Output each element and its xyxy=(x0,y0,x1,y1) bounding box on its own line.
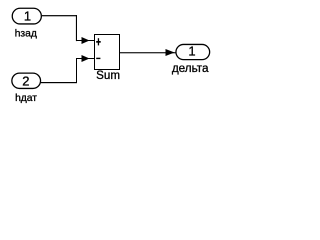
svg-text:hдат: hдат xyxy=(15,93,37,104)
svg-text:2: 2 xyxy=(22,73,29,88)
svg-text:1: 1 xyxy=(24,9,31,24)
svg-text:hзад: hзад xyxy=(15,29,37,40)
svg-text:дельта: дельта xyxy=(172,62,209,75)
svg-text:Sum: Sum xyxy=(96,69,120,82)
svg-text:1: 1 xyxy=(188,44,195,59)
